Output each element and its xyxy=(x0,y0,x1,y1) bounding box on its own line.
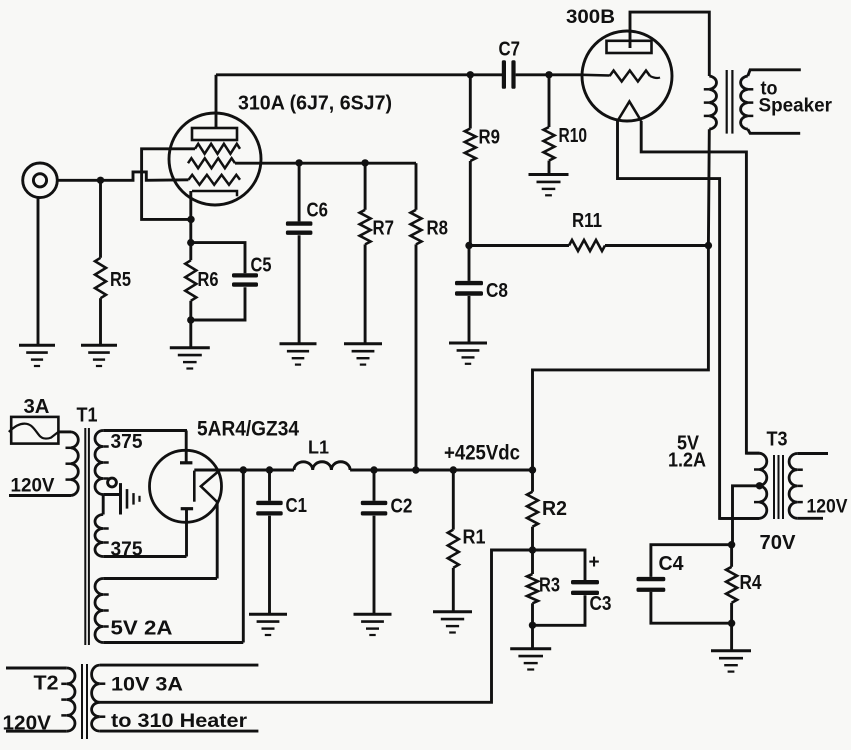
ground (R3) xyxy=(510,647,551,650)
wire B+ rail (cathode to L1) xyxy=(194,469,294,472)
resistor R11 xyxy=(469,244,569,247)
fuse 3A xyxy=(11,417,58,444)
svg-text:120V: 120V xyxy=(807,497,848,518)
svg-text:R6: R6 xyxy=(198,269,219,291)
svg-text:C3: C3 xyxy=(590,593,612,615)
resistor R7 xyxy=(364,163,367,210)
node 70V / R4 / C4 xyxy=(728,541,735,548)
node plate line / R9 xyxy=(467,71,474,78)
resistor R9 xyxy=(469,75,472,129)
wire heater bias (R2R3 node to T2 tap) xyxy=(100,550,533,702)
svg-text:120V: 120V xyxy=(11,476,55,497)
5AR4 plate 2 (bottom) xyxy=(181,507,193,510)
wire jack to grid (with jog over suppressor wire) xyxy=(57,172,188,180)
svg-text:C2: C2 xyxy=(391,496,413,518)
choke L1 xyxy=(294,462,350,470)
svg-text:R11: R11 xyxy=(572,210,602,232)
node screen / C6 xyxy=(295,159,302,166)
300B grid xyxy=(582,74,609,77)
svg-text:R10: R10 xyxy=(559,125,588,147)
capacitor C4 xyxy=(651,545,732,577)
svg-text:C7: C7 xyxy=(499,39,521,61)
resistor R2 xyxy=(531,470,534,492)
wire 310A plate line xyxy=(216,73,502,76)
node R1 top xyxy=(450,466,457,473)
tube 300B envelope xyxy=(582,31,672,121)
ground (R1) xyxy=(433,610,472,613)
svg-text:T2: T2 xyxy=(34,673,59,695)
svg-text:R3: R3 xyxy=(539,575,560,597)
svg-text:120V: 120V xyxy=(3,713,52,735)
T1 core xyxy=(84,428,86,645)
svg-text:1.2A: 1.2A xyxy=(668,450,706,472)
T3 core xyxy=(773,455,775,519)
310A suppressor grid xyxy=(195,144,240,154)
5AR4 cathode bar xyxy=(193,471,196,502)
capacitor C7 xyxy=(502,60,506,89)
T3 5V winding xyxy=(746,452,759,455)
node R8 bottom xyxy=(412,466,419,473)
svg-text:R8: R8 xyxy=(427,218,449,240)
wire cathode down xyxy=(189,191,192,260)
svg-text:R1: R1 xyxy=(463,527,486,549)
capacitor C2 xyxy=(373,470,376,501)
resistor R3 xyxy=(531,550,534,574)
310A cathode xyxy=(192,191,237,196)
svg-text:T1: T1 xyxy=(77,405,98,427)
capacitor C8 xyxy=(468,246,471,281)
resistor R10 xyxy=(548,75,551,127)
capacitor C3 xyxy=(533,550,586,580)
resistor R4 xyxy=(730,545,733,567)
svg-text:375: 375 xyxy=(111,431,143,453)
node cathode / suppressor xyxy=(187,216,194,223)
T1 5V filament winding xyxy=(103,577,217,580)
svg-text:375: 375 xyxy=(111,539,143,561)
node C1 top xyxy=(266,466,273,473)
node C7 / R10 xyxy=(545,71,552,78)
wire OPT primary bottom to B+ node xyxy=(533,129,710,470)
node R2 / R3 / C3 xyxy=(529,546,536,553)
ground (C6) xyxy=(280,342,317,345)
svg-text:C4: C4 xyxy=(659,553,685,575)
node screen / R7 xyxy=(361,159,368,166)
T1 HV center tap xyxy=(102,495,105,515)
ground (C8) xyxy=(449,342,487,345)
ground (R7) xyxy=(344,342,382,345)
svg-text:310A (6J7, 6SJ7): 310A (6J7, 6SJ7) xyxy=(238,92,392,115)
T1 primary winding xyxy=(71,432,78,496)
T1 HV secondary lower (375V) xyxy=(95,515,103,557)
svg-text:R9: R9 xyxy=(479,127,501,149)
node C2 top xyxy=(370,466,377,473)
wire 5V winding bottom to B+ xyxy=(242,470,245,643)
capacitor C6 xyxy=(298,163,301,221)
node R11 / OPT primary return xyxy=(705,242,712,249)
output transformer secondary xyxy=(748,70,801,76)
output transformer core xyxy=(726,70,728,134)
svg-text:R4: R4 xyxy=(740,572,763,594)
node R6 bottom / C5 bottom xyxy=(187,316,194,323)
ground (R5) xyxy=(81,344,117,347)
T2 core xyxy=(81,664,83,739)
310A control grid xyxy=(189,175,241,185)
svg-text:300B: 300B xyxy=(566,6,615,28)
5AR4 plate 1 (top) xyxy=(185,431,188,463)
resistor R8 xyxy=(415,163,418,210)
svg-text:Speaker: Speaker xyxy=(759,96,833,117)
capacitor C5 xyxy=(191,243,245,274)
T2 secondary winding xyxy=(100,664,259,667)
wire jack to ground xyxy=(37,198,40,346)
node B+ / R2 / OPT feed xyxy=(529,466,536,473)
ground (R4) xyxy=(711,649,751,652)
wire screen line xyxy=(235,162,416,165)
T1 HV secondary upper (375V) xyxy=(103,429,187,432)
svg-text:R2: R2 xyxy=(542,498,567,520)
ground (R10) xyxy=(529,173,569,176)
capacitor C1 xyxy=(268,470,271,501)
300B plate box xyxy=(607,41,652,53)
svg-text:70V: 70V xyxy=(760,532,797,554)
svg-text:C5: C5 xyxy=(251,255,272,277)
node R9 / C8 / R11 xyxy=(465,242,472,249)
node input / R5 top xyxy=(97,177,104,184)
wire filament left leg to T3 5V- xyxy=(618,121,760,518)
svg-text:C6: C6 xyxy=(307,200,329,222)
310A plate box xyxy=(192,128,237,140)
ground (R6) xyxy=(170,346,210,349)
svg-text:C8: C8 xyxy=(486,280,508,302)
output transformer primary xyxy=(709,76,716,129)
wire fuse to T1 primary xyxy=(58,430,71,433)
T1 primary 120V lead xyxy=(9,494,71,497)
node R4 bottom / C4 bottom xyxy=(728,620,735,627)
svg-text:5V 2A: 5V 2A xyxy=(111,618,173,640)
wire C7 to 300B grid xyxy=(516,73,583,76)
wire B+ rail (L1 to R2) xyxy=(350,469,532,472)
tube 310A envelope xyxy=(169,113,261,205)
svg-text:T3: T3 xyxy=(767,429,788,451)
input jack J1 xyxy=(23,163,58,198)
ground (input jack) xyxy=(19,344,55,347)
310A plate top-cap lead xyxy=(215,75,218,128)
T2 primary winding xyxy=(6,667,67,670)
svg-text:+425Vdc: +425Vdc xyxy=(444,442,520,465)
svg-text:to 310 Heater: to 310 Heater xyxy=(111,711,248,732)
ground (C1) xyxy=(249,613,287,616)
svg-text:L1: L1 xyxy=(308,438,329,458)
wire 5AR4 filament to 5V winding xyxy=(216,503,219,579)
300B top-cap wire to OPT xyxy=(630,12,709,76)
T3 120V winding xyxy=(797,452,828,455)
tube 5AR4 envelope xyxy=(150,450,222,522)
T3 center tap wire (70V) xyxy=(733,486,760,545)
resistor R5 xyxy=(99,180,102,257)
resistor R1 xyxy=(452,470,455,530)
resistor R6 xyxy=(185,260,196,301)
node 5V winding return / B+ xyxy=(240,466,247,473)
node T3 center tap xyxy=(756,482,763,489)
svg-text:+: + xyxy=(589,552,600,573)
svg-text:10V 3A: 10V 3A xyxy=(111,675,183,696)
5AR4 filament arrow xyxy=(201,471,219,503)
svg-text:C1: C1 xyxy=(286,495,308,517)
svg-text:R5: R5 xyxy=(110,269,131,291)
wire suppressor to cathode xyxy=(142,149,195,220)
310A screen grid xyxy=(188,158,235,168)
ground (C2) xyxy=(354,613,392,616)
node cathode / R6-C5 top xyxy=(187,239,194,246)
node R3 bottom / C3 bottom xyxy=(529,622,536,629)
wire filament right leg to T3 5V+ xyxy=(641,121,759,453)
svg-text:R7: R7 xyxy=(373,218,395,240)
300B filament xyxy=(618,102,642,122)
svg-text:3A: 3A xyxy=(24,396,50,418)
svg-text:5AR4/GZ34: 5AR4/GZ34 xyxy=(197,418,299,441)
